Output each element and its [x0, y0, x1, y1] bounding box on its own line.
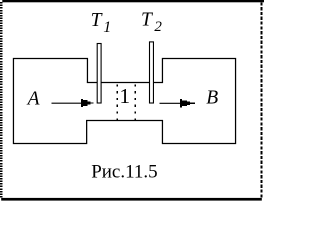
- arrow A head: [81, 99, 93, 107]
- arrow B shaft: [160, 102, 182, 104]
- svg-text:1: 1: [119, 84, 130, 108]
- thermometer tube T1: [97, 44, 101, 104]
- frame right dashed edge: [260, 2, 262, 198]
- channel bottom wall: [86, 120, 163, 122]
- svg-text:Рис.11.5: Рис.11.5: [91, 162, 157, 183]
- svg-text:T: T: [141, 10, 153, 31]
- channel top wall: [87, 82, 163, 84]
- svg-text:B: B: [206, 88, 218, 109]
- vessel A box outline with step to channel: [13, 59, 87, 144]
- dotted section line right of region 1: [134, 84, 136, 120]
- dotted section line left of region 1: [116, 84, 118, 120]
- vessel B box outline with step to channel: [162, 59, 235, 144]
- svg-text:T: T: [91, 10, 103, 31]
- frame top solid bar: [2, 0, 264, 2]
- svg-text:A: A: [26, 89, 40, 110]
- svg-text:2: 2: [154, 19, 162, 35]
- frame left dotted edge: [0, 2, 2, 197]
- thermometer tube T2: [150, 42, 154, 103]
- svg-text:1: 1: [103, 19, 111, 36]
- arrow A shaft: [52, 102, 82, 104]
- frame bottom solid bar: [1, 198, 262, 201]
- arrow B head: [180, 99, 195, 108]
